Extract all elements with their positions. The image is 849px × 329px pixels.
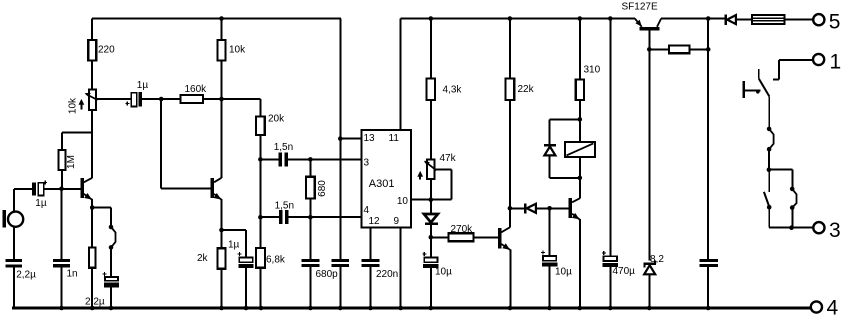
capacitor 1n (53, 259, 70, 267)
wire Q1 emitter (91, 199, 93, 247)
svg-text:13: 13 (364, 133, 376, 144)
capacitor output (699, 259, 718, 267)
wire 310 to relay node (579, 100, 581, 119)
label 1,5n second (275, 200, 294, 211)
svg-text:9: 9 (394, 216, 400, 227)
wire node to relay coil (579, 119, 581, 141)
node 680 top junction (308, 157, 313, 162)
wire 1u cap to ground (245, 268, 247, 308)
node 270k junction (429, 235, 434, 240)
wire 2,2u cap to ground (110, 288, 112, 308)
pin 4 label (364, 205, 370, 216)
label 8,2 (650, 254, 664, 265)
transistor SF127E (635, 19, 661, 31)
wire rail to 310 (579, 19, 581, 80)
wire terminal 1 to contact (773, 60, 813, 79)
wire emitter to 1u cap (222, 230, 247, 258)
terminal 1 (813, 54, 824, 65)
capacitor 10u second electrolytic (541, 251, 557, 267)
wire C2 to 160k node (142, 98, 162, 100)
fuse F1 (752, 15, 785, 24)
label 160k (185, 84, 208, 95)
resistor 2k (218, 248, 226, 268)
wire rail to 22k (509, 19, 511, 79)
wire node to 6,8k (259, 217, 261, 248)
wire 1,5n second to pin 4 (289, 216, 362, 218)
node Q3 collector junction (508, 206, 513, 211)
svg-text:310: 310 (584, 64, 601, 75)
wire zener to ground (648, 274, 650, 308)
wire base node to zener (648, 49, 650, 260)
svg-text:680: 680 (317, 180, 328, 197)
label 10u second (555, 267, 572, 278)
terminal 5 (813, 14, 824, 25)
label C1 1u (35, 198, 47, 209)
node Q2 collector junction (219, 97, 224, 102)
svg-text:22k: 22k (518, 84, 535, 95)
wire node to 1,5n first (260, 158, 278, 160)
wire branch right jog (769, 170, 792, 189)
svg-text:3: 3 (829, 219, 841, 242)
label 220 (98, 44, 115, 55)
wire mic bottom lead (13, 227, 15, 260)
svg-text:A301: A301 (369, 178, 395, 190)
resistor 22k (506, 79, 515, 101)
wire 22k to collector node (509, 100, 511, 227)
label 1M (66, 155, 77, 169)
label terminal 4 (827, 297, 839, 320)
wire 160k to collector node (203, 98, 222, 100)
wire node to D3 (510, 207, 524, 209)
capacitor 10u first electrolytic (422, 252, 438, 268)
resistor 160k (181, 95, 204, 103)
wire rail to 4,3k (430, 19, 432, 79)
label 1n (67, 269, 78, 280)
wire 1M to base node (61, 170, 63, 189)
wire pin13 node down to cap (339, 139, 341, 259)
wire emitter resistor to ground (91, 268, 93, 308)
pin 9 label (394, 216, 400, 227)
label 2,2u input (16, 270, 36, 281)
wire collector node to 20k (222, 99, 261, 116)
svg-text:3: 3 (364, 158, 370, 169)
node 680 bottom junction (308, 215, 313, 220)
svg-text:470µ: 470µ (613, 266, 636, 277)
wire Q2 collector (221, 99, 223, 178)
svg-text:4,3k: 4,3k (443, 85, 463, 96)
node Q4 base junction (547, 206, 552, 211)
svg-text:4: 4 (364, 205, 370, 216)
wire 20k to divider node (259, 135, 261, 159)
label 1,5n first (274, 142, 293, 153)
label 20k (268, 114, 285, 125)
svg-text:47k: 47k (440, 153, 457, 164)
wire C1 to base node (44, 188, 62, 190)
svg-text:11: 11 (389, 133, 400, 144)
node pin13 junction (338, 136, 343, 141)
wire rail to 470u (609, 19, 611, 257)
arrow 47k trim (417, 171, 423, 180)
resistor 6,8k (256, 248, 265, 268)
label 270k (451, 224, 474, 235)
terminal 3 (813, 222, 824, 233)
zener diode 8,2 (644, 260, 656, 274)
diode D3 (524, 203, 536, 213)
svg-text:1µ: 1µ (137, 80, 149, 91)
wire 10k to collector node (221, 61, 223, 100)
wire pin 11 to rail (400, 19, 402, 131)
node base junction Q1 (59, 187, 64, 192)
wire resistor to right line (689, 48, 708, 50)
wire divider node down (259, 159, 261, 217)
capacitor 470u electrolytic (602, 251, 618, 267)
capacitor 1u emitter electrolytic (238, 252, 254, 268)
pin 10 label (397, 196, 409, 207)
svg-text:1µ: 1µ (35, 198, 47, 209)
svg-text:2,2µ: 2,2µ (85, 297, 105, 308)
wire 220n to ground (370, 267, 372, 308)
wire base node to Q1 (62, 188, 81, 190)
svg-text:220: 220 (98, 44, 115, 55)
svg-text:2,2µ: 2,2µ (16, 270, 36, 281)
label 2k (197, 253, 209, 264)
label 220n (376, 269, 398, 280)
node relay top junction (578, 117, 583, 122)
svg-text:2k: 2k (197, 253, 209, 264)
wire top supply rail segments (92, 19, 813, 20)
wire to Q2 base (161, 187, 210, 189)
label 47k (440, 153, 457, 164)
diode D2 (424, 214, 438, 225)
resistor 20k (256, 116, 265, 135)
wire 470u to ground (609, 267, 611, 308)
wire 2,2u to ground (13, 268, 15, 309)
wire node to 10u (430, 237, 432, 257)
label C2 1u (137, 80, 149, 91)
wire rail drop to pin 13 (339, 19, 341, 139)
capacitor decoupling (331, 259, 349, 267)
wire diode to 270k node (430, 225, 432, 237)
node pot bottom junction (429, 197, 434, 202)
wire 680p to ground (309, 267, 311, 308)
svg-text:10µ: 10µ (435, 266, 452, 277)
svg-text:12: 12 (369, 216, 381, 227)
resistor 220 (88, 40, 96, 61)
wire base node to resistor (649, 48, 669, 50)
wire right line down (707, 19, 709, 259)
wire 680 to pin4 row (309, 198, 311, 217)
pin 3 label (364, 158, 370, 169)
label 680 (317, 180, 328, 197)
label 10k pot (67, 97, 78, 114)
svg-text:4: 4 (827, 297, 839, 320)
wire pin 9 to ground (400, 228, 402, 309)
wire contact to branch node (768, 149, 770, 170)
wire 10u to ground (430, 268, 432, 308)
switch common pole (744, 81, 761, 98)
capacitor 220n (362, 259, 380, 267)
wire 47k to diode (430, 179, 432, 214)
wire SF127E base down (648, 30, 650, 49)
svg-text:10: 10 (397, 196, 409, 207)
capacitor 2,2u emitter electrolytic (103, 272, 119, 288)
label 6,8k (266, 254, 286, 265)
wire Q3 emitter to ground (509, 249, 511, 308)
svg-text:1,5n: 1,5n (275, 200, 294, 211)
switch contact S3 (767, 127, 774, 152)
wire relay diode bottom (550, 155, 580, 178)
node 6,8k top junction (258, 215, 263, 220)
label 4,3k (443, 85, 463, 96)
label 310 (584, 64, 601, 75)
svg-text:270k: 270k (451, 224, 474, 235)
diode D1 (724, 15, 736, 25)
wire relay diode top (550, 119, 580, 143)
svg-text:1,5n: 1,5n (274, 142, 293, 153)
svg-text:1µ: 1µ (228, 240, 240, 251)
wire decoupling cap to ground (339, 267, 341, 308)
capacitor 680p (302, 259, 320, 267)
node bottom rail junction dots (59, 306, 710, 311)
relay coil K1 (565, 142, 595, 157)
node divider junction (258, 157, 263, 162)
wire pin 10 row (411, 199, 452, 201)
wire 220 to pot (91, 61, 93, 90)
potentiometer 10k (85, 90, 98, 111)
svg-text:SF127E: SF127E (622, 2, 658, 13)
node Q2 emitter junction (219, 228, 224, 233)
resistor 270k (449, 233, 474, 241)
resistor 680 (306, 159, 315, 198)
wire bottom ground rail (12, 307, 811, 310)
wire 680 node to 680p (309, 217, 311, 259)
label 2,2u switch cap (85, 297, 105, 308)
node base resistor junction right (706, 47, 711, 52)
switch contact S1a (109, 225, 116, 250)
label 680p (316, 269, 339, 280)
label 470u (613, 266, 636, 277)
switch contact S5 break (764, 170, 772, 228)
svg-text:10k: 10k (67, 97, 78, 114)
wire 1n branch (61, 189, 63, 308)
svg-text:5: 5 (829, 10, 841, 33)
wire rail to 10k (221, 19, 223, 41)
arrow 10k trim (79, 99, 85, 110)
wire right branch down (791, 208, 793, 228)
wire node to 270k (431, 236, 449, 238)
resistor base unlabeled (669, 46, 689, 54)
svg-text:1M: 1M (66, 155, 77, 169)
diode D4 freewheel (544, 144, 556, 156)
capacitor 1,5n first (278, 152, 288, 166)
wire D3 to base node (536, 207, 550, 209)
label 10u first (435, 266, 452, 277)
wire node to 160k (161, 98, 180, 100)
wire right line to ground (707, 267, 709, 308)
svg-text:1n: 1n (67, 269, 78, 280)
node terminal 3 junction (789, 225, 794, 230)
op-amp U1 A301 box (362, 130, 412, 228)
label terminal 3 (829, 219, 841, 242)
transistor Q4 (569, 198, 580, 220)
transistor Q2 (211, 178, 222, 200)
wire switch to 2,2u cap (110, 247, 112, 277)
switch contact S2 lever (759, 69, 770, 129)
pin 11 label (389, 133, 400, 144)
resistor 310 (576, 80, 584, 100)
wire collector to 1M (62, 133, 92, 151)
wire rail to 220 (91, 19, 93, 41)
capacitor 1,5n second (279, 210, 289, 224)
potentiometer 47k (424, 160, 436, 180)
svg-text:8,2: 8,2 (650, 254, 664, 265)
wire pot wiper tap (96, 98, 131, 100)
wire 160k node down (160, 99, 162, 188)
wire emitter to switch branch (92, 208, 111, 228)
pin 12 label (369, 216, 381, 227)
wire base node to 10u (549, 208, 551, 256)
wire 2k to ground (221, 269, 223, 308)
wire mic top lead (14, 189, 32, 212)
label 22k (518, 84, 535, 95)
svg-text:680p: 680p (316, 269, 339, 280)
wire Q4 collector (579, 178, 581, 198)
label terminal 1 (830, 50, 842, 73)
svg-text:6,8k: 6,8k (266, 254, 286, 265)
svg-text:160k: 160k (185, 84, 208, 95)
svg-text:220n: 220n (376, 269, 398, 280)
wire Q2 emitter to 2k (221, 199, 223, 248)
svg-text:10k: 10k (229, 44, 246, 55)
svg-text:1: 1 (830, 50, 842, 73)
label A301 (369, 178, 395, 190)
wire 270k to Q3 base (474, 236, 498, 238)
transistor Q3 (498, 227, 511, 250)
wire node to 1,5n second (260, 216, 279, 218)
capacitor C2 1u electrolytic (125, 92, 142, 107)
wire relay coil to collector node (579, 157, 581, 178)
switch contact S4 (790, 187, 797, 210)
svg-text:20k: 20k (268, 114, 285, 125)
capacitor C1 1u electrolytic input (32, 181, 47, 196)
svg-text:10µ: 10µ (555, 267, 572, 278)
node relay bottom junction (578, 176, 583, 181)
wire 6,8k to ground (259, 268, 261, 308)
pin 13 label (364, 133, 376, 144)
wire pin13 to IC (340, 138, 361, 140)
wire 4,3k to 47k (430, 100, 432, 160)
wire contacts to terminal 3 (769, 227, 813, 229)
resistor 4,3k (427, 79, 436, 101)
resistor 1M (59, 150, 66, 170)
wire pot to Q1 collector (91, 110, 93, 178)
label 10k (229, 44, 246, 55)
wire 10u second to ground (549, 267, 551, 308)
wire Q4 emitter to ground (579, 219, 581, 308)
label terminal 5 (829, 10, 841, 33)
microphone M1 (3, 210, 24, 228)
transistor Q1 (80, 178, 92, 200)
label 1u emitter (228, 240, 240, 251)
node Q1 emitter junction (90, 205, 95, 210)
node contact branch junction (767, 167, 772, 172)
terminal 4 (811, 301, 822, 312)
wire tap corner (435, 169, 452, 199)
resistor Q1 emitter (89, 247, 96, 267)
node 160k junction (159, 97, 164, 102)
label SF127E (622, 2, 658, 13)
wire pin 12 to 220n (370, 228, 372, 259)
capacitor 2,2u input (5, 259, 22, 267)
node top rail junction dots (219, 16, 710, 21)
wire node to Q4 base (550, 207, 569, 209)
resistor 10k (218, 40, 226, 61)
wire 1,5n to pin 3 (288, 158, 362, 160)
node base resistor junction left (647, 47, 652, 52)
